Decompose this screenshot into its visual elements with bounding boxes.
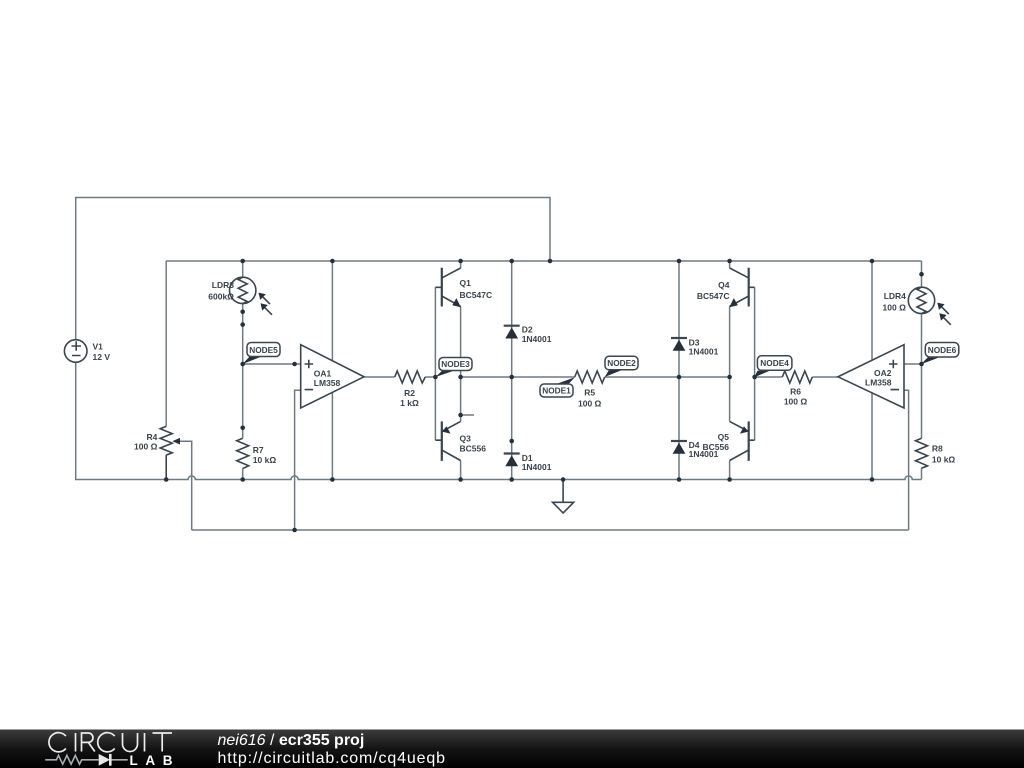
junction: R4 / bottom rail	[164, 477, 169, 482]
resistor R7 (overlapped R1) 10 k	[237, 438, 277, 468]
potentiometer R4 100	[134, 426, 180, 479]
wire: top rail	[166, 260, 922, 262]
diode D1 1N4001	[504, 453, 552, 472]
wire: Q5 emitter from row	[729, 377, 731, 421]
junction: D1 overlap	[509, 439, 514, 444]
wire: Q3 emitter stub	[461, 414, 474, 416]
svg-text:Q3: Q3	[460, 434, 472, 444]
junction: LDR3 line / top rail	[240, 259, 245, 264]
junction: Q5 collector / bottom rail	[727, 477, 732, 482]
svg-text:BC547C: BC547C	[460, 290, 493, 300]
junction: NODE1 emitter tie	[458, 375, 463, 380]
svg-text:1N4001: 1N4001	[522, 462, 552, 472]
footer bar background	[0, 730, 1024, 768]
svg-text:Q1: Q1	[460, 278, 472, 288]
wire: Q3 emitter from row	[460, 377, 462, 421]
svg-text:100 Ω: 100 Ω	[883, 303, 907, 313]
node label NODE6	[921, 343, 959, 365]
junction: OA2 V+ / top rail	[870, 259, 875, 264]
svg-text:1N4001: 1N4001	[689, 347, 719, 357]
wire: Q3 collector to bottom rail	[460, 461, 462, 480]
wire: OA1 V- pin to bottom rail	[331, 392, 333, 479]
svg-text:NODE6: NODE6	[928, 345, 957, 355]
wire: lower feedback bus	[192, 529, 909, 531]
svg-text:OA1: OA1	[314, 368, 332, 378]
wire: LDR4 top lead from rail corner	[921, 261, 923, 287]
FOOTER	[45, 732, 446, 768]
junction: D2 line / top rail	[509, 259, 514, 264]
svg-text:NODE1: NODE1	[542, 386, 571, 396]
node label NODE3	[435, 358, 472, 378]
photoresistor LDR4	[883, 287, 951, 325]
wire: OA2 V+ pin to top rail	[871, 261, 873, 361]
wire: bottom rail with hops	[75, 476, 922, 480]
wire: OA2 - input feedback down	[904, 390, 909, 530]
wire: Q5 collector to bottom rail	[729, 461, 731, 480]
wire: LDR3 top lead from rail	[242, 261, 244, 277]
svg-text:Q5: Q5	[718, 432, 730, 442]
ground	[553, 480, 574, 514]
svg-text:BC547C: BC547C	[697, 291, 730, 301]
svg-text:nei616 / ecr355 proj: nei616 / ecr355 proj	[218, 732, 365, 749]
junction: Q4 collector / top rail	[727, 259, 732, 264]
junction: ground / bottom rail	[561, 477, 566, 482]
junction: D4 / bottom rail	[677, 477, 682, 482]
junction: D1 / bottom rail	[509, 477, 514, 482]
svg-text:100 Ω: 100 Ω	[578, 398, 602, 408]
svg-text:10 kΩ: 10 kΩ	[253, 455, 277, 465]
resistor R2 1k	[395, 371, 426, 408]
svg-text:BC556: BC556	[460, 444, 487, 454]
svg-text:600kΩ: 600kΩ	[208, 292, 234, 302]
svg-text:LAB: LAB	[130, 753, 173, 768]
svg-text:1 kΩ: 1 kΩ	[400, 398, 419, 408]
junction: NODE4 base tie	[752, 375, 757, 380]
svg-text:R6: R6	[790, 386, 801, 396]
junction: V1 feed / top rail	[548, 259, 553, 264]
svg-text:100 Ω: 100 Ω	[134, 441, 158, 451]
junction: OA1 + input pin	[292, 362, 297, 367]
svg-text:NODE2: NODE2	[607, 358, 636, 368]
CircuitLab logo wordmark CIRCUIT	[49, 733, 172, 752]
op-amp OA2 LM358	[838, 345, 904, 408]
wire: V1 bottom lead	[75, 363, 77, 480]
svg-text:R2: R2	[404, 388, 415, 398]
diode D4 1N4001	[671, 440, 719, 459]
svg-text:100 Ω: 100 Ω	[784, 396, 808, 406]
wire: OA2 V- pin to bottom rail	[871, 392, 873, 479]
svg-text:R4: R4	[147, 432, 158, 442]
wire: R8 bottom lead	[921, 468, 923, 479]
svg-text:R8: R8	[932, 444, 943, 454]
photoresistor LDR3 (overlapped LDR1)	[208, 277, 272, 315]
svg-text:LDR3: LDR3	[212, 280, 234, 290]
transistor Q5 BC556	[703, 421, 755, 461]
junction: NODE3 base tie	[433, 375, 438, 380]
wire: Q4 collector to rail	[729, 261, 731, 268]
diode D2 1N4001	[504, 325, 552, 344]
svg-text:12 V: 12 V	[93, 352, 111, 362]
wire: NODE2 row from R5 through D3 to Q4/Q5 emitters	[605, 376, 730, 378]
junction: R7 / bottom rail	[240, 477, 245, 482]
voltage source V1	[64, 340, 110, 363]
wire: Q4 emitter down to row	[729, 307, 731, 378]
junction: Q1 collector / top rail	[458, 259, 463, 264]
resistor R6 100	[782, 371, 812, 406]
wire: R4 wiper line down	[178, 441, 192, 530]
wire: OA1 output to R2	[364, 376, 395, 378]
resistor R8 10k	[916, 438, 956, 468]
wire: NODE1 row from emitters to R5	[461, 376, 575, 378]
svg-text:NODE5: NODE5	[249, 345, 278, 355]
node label NODE4	[754, 356, 792, 377]
transistor Q3 BC556	[435, 421, 486, 461]
junction: D3-D4 / NODE2 row	[677, 375, 682, 380]
logo resistor-diode glyph	[45, 755, 128, 764]
junction: OA2 V- / bottom rail	[870, 477, 875, 482]
svg-text:R7: R7	[253, 445, 264, 455]
svg-text:R5: R5	[584, 388, 595, 398]
node label NODE5	[243, 343, 280, 365]
wire: NODE4 to R6	[755, 376, 783, 378]
node label NODE2	[605, 356, 638, 377]
junction: Q3 emitter stub	[458, 413, 463, 418]
svg-text:Q4: Q4	[718, 280, 730, 290]
junction: D3 line / top rail	[677, 259, 682, 264]
svg-text:NODE3: NODE3	[441, 359, 470, 369]
svg-text:LDR4: LDR4	[884, 291, 906, 301]
wire: LDR4 bottom lead through NODE6 to R8	[921, 314, 923, 439]
junction: OA1 - input / feedback bus	[292, 528, 297, 533]
junction: OA1 V+ / top rail	[330, 259, 335, 264]
wire: shared base line Q1/Q3	[434, 287, 436, 440]
svg-text:LM358: LM358	[314, 378, 341, 388]
junction: OA1 V- / bottom rail	[330, 477, 335, 482]
node label NODE1	[540, 377, 575, 397]
svg-text:V1: V1	[93, 342, 104, 352]
wire: left inner vertical to R4	[165, 261, 167, 426]
wire: D2/D1 vertical	[511, 261, 513, 480]
wire: R6 to OA2 output apex	[812, 376, 838, 378]
junction: LDR1/LDR3 overlap lower	[240, 322, 245, 327]
wire: V1 top lead up and across to rail drop	[76, 198, 550, 340]
wire: LDR3 bottom lead down through NODE5 to R7	[242, 304, 244, 439]
svg-text:1N4001: 1N4001	[522, 334, 552, 344]
junction: LDR1/LDR3 overlap upper	[240, 310, 245, 315]
resistor R5 100	[575, 371, 605, 408]
svg-text:10 kΩ: 10 kΩ	[932, 455, 956, 465]
wire: shared base line Q4/Q5	[754, 287, 756, 440]
junction: LDR4 overlap	[919, 272, 924, 277]
junction: Q4/Q5 emitter tie	[727, 375, 732, 380]
wire: NODE5 to OA1 + input	[243, 363, 301, 365]
wire: Q1 collector to rail	[460, 261, 462, 268]
diode D3 1N4001	[671, 337, 719, 356]
op-amp OA1 LM358	[301, 345, 364, 408]
transistor Q1 BC547C	[435, 268, 492, 308]
junction: NODE6 tap	[919, 362, 924, 367]
junction dots group	[164, 259, 924, 533]
svg-text:BC556: BC556	[703, 442, 730, 452]
wire: R2 to Q1/Q3 base junction	[425, 376, 435, 378]
svg-text:http://circuitlab.com/cq4ueqb: http://circuitlab.com/cq4ueqb	[218, 750, 446, 767]
junction: R1/R7 overlap	[240, 426, 245, 431]
wire: Q1 emitter down to NODE1 row	[460, 307, 462, 378]
wire: OA2 + input to NODE6	[904, 363, 922, 365]
wire: R7 bottom lead	[242, 469, 244, 480]
svg-text:LM358: LM358	[865, 378, 892, 388]
junction: Q3 collector / bottom rail	[458, 477, 463, 482]
junction: D2-D1 / NODE1 row	[509, 375, 514, 380]
wire: D3/D4 vertical	[678, 261, 680, 480]
svg-text:NODE4: NODE4	[760, 358, 789, 368]
wire: OA1 - input feedback down	[295, 390, 301, 530]
junction: NODE5 tap	[240, 362, 245, 367]
wire: OA1 V+ pin to top rail	[331, 261, 333, 361]
transistor Q4 BC547C	[697, 268, 755, 308]
